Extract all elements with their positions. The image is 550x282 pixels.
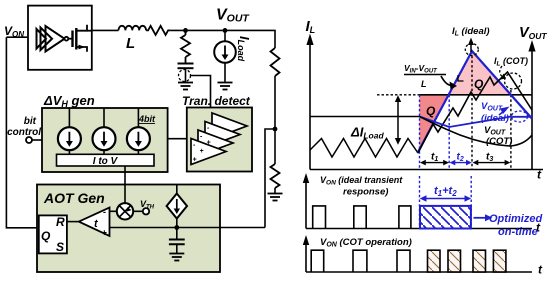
svg-text:IL: IL	[306, 18, 316, 35]
arrow VOUT ideal pointer (blue)	[499, 110, 506, 116]
axis t (top plot)	[310, 169, 543, 171]
wire comparator plus input (feedback rail)	[110, 227, 266, 229]
svg-text:VON (ideal transient: VON (ideal transient	[320, 175, 403, 187]
steady-state ripple sawtooth	[310, 139, 418, 158]
marker t3 line (black dotted)	[510, 90, 512, 170]
svg-text:I to V: I to V	[93, 156, 119, 167]
waveform VOUT ideal (blue)	[420, 117, 533, 128]
svg-text:R: R	[56, 215, 65, 229]
multiplier X1	[117, 203, 133, 219]
svg-text:L: L	[126, 35, 135, 52]
marker ellipse IL ideal peak	[465, 44, 478, 56]
waveform IL COT (black sawtooth)	[418, 72, 532, 153]
COT pulse 4 (hatched)	[428, 250, 441, 272]
svg-text:Q: Q	[426, 104, 436, 118]
svg-text:VIN-VOUT: VIN-VOUT	[404, 63, 438, 75]
svg-text:(ideal): (ideal)	[481, 113, 509, 124]
svg-text:VOUT: VOUT	[216, 7, 250, 25]
node VOUT junction	[223, 28, 228, 33]
arrow to IL COT peak	[500, 66, 503, 77]
wire I-to-V output to multiplier	[124, 166, 126, 203]
block Tran detect	[187, 108, 252, 172]
arrow optimized on-time pointer (blue)	[474, 217, 488, 219]
svg-text:+: +	[207, 140, 211, 147]
svg-text:ΔVH gen: ΔVH gen	[43, 93, 95, 109]
node B (feedback)	[273, 127, 278, 132]
block AOT Gen	[37, 185, 220, 273]
svg-text:+: +	[200, 148, 204, 155]
wire divider	[274, 76, 276, 164]
slope right-angle tick	[458, 75, 464, 81]
ground (timing cap)	[169, 254, 184, 261]
axis VON ideal (y)	[305, 180, 307, 229]
svg-text:bit: bit	[24, 116, 37, 127]
gate driver buffer chain	[37, 26, 65, 52]
svg-text:on-time: on-time	[498, 226, 538, 238]
svg-text:VOUT: VOUT	[481, 101, 503, 113]
comparator U3 (on-time)	[79, 208, 110, 237]
dotted load level (pre-step)	[377, 94, 420, 96]
marker t2 line (blue dotted)	[448, 95, 450, 170]
comparator bank	[191, 113, 247, 165]
axis VON COT (y)	[305, 242, 307, 272]
transistor M1 (NMOS)	[65, 25, 92, 52]
svg-text:Optimized: Optimized	[489, 213, 542, 225]
svg-text:VON (COT operation): VON (COT operation)	[320, 237, 412, 249]
svg-text:AOT Gen: AOT Gen	[43, 190, 105, 206]
svg-text:t2: t2	[457, 152, 464, 164]
waveform IL ideal (blue triangle)	[418, 51, 533, 153]
current source I3	[127, 108, 150, 154]
arrow dILoad	[397, 99, 399, 141]
region Q1 (charge deficit, red)	[420, 95, 449, 150]
block dVH gen	[42, 108, 168, 172]
svg-text:4bit: 4bit	[138, 114, 156, 124]
marker ellipse VOUT ideal (blue dashed)	[512, 111, 528, 122]
svg-text:-: -	[103, 207, 106, 217]
svg-text:(COT): (COT)	[486, 136, 512, 147]
COT pulse 7 (hatched)	[493, 250, 506, 272]
svg-text:ΔILoad: ΔILoad	[350, 125, 384, 141]
wire VOUT to divider	[225, 30, 275, 48]
arrow t1+t2 span (blue)	[423, 198, 468, 200]
region Q2 (charge surplus, pink)	[449, 51, 511, 95]
node C (timing cap node)	[174, 225, 179, 230]
SR latch U2	[39, 215, 67, 253]
VOUT flat level line	[310, 116, 420, 118]
axis VOUT (top plot right axis)	[531, 46, 533, 170]
svg-text:+: +	[193, 157, 197, 164]
svg-text:IL (ideal): IL (ideal)	[452, 26, 490, 38]
wire comparator minus to multiplier	[110, 210, 118, 212]
svg-text:VOUT: VOUT	[484, 125, 506, 137]
current sensor (dashed circle)	[179, 70, 191, 82]
svg-text:VOUT: VOUT	[519, 25, 547, 41]
ground (ILoad)	[218, 83, 233, 90]
marker ellipse IL COT peak	[505, 73, 522, 89]
pulse train VON COT	[311, 250, 410, 272]
svg-text:t: t	[538, 263, 543, 277]
svg-text:t3: t3	[486, 152, 493, 164]
wire box output to inductor	[92, 29, 119, 31]
current source ILoad	[224, 30, 226, 41]
I to V converter	[57, 154, 155, 166]
svg-text:t1+t2: t1+t2	[434, 185, 457, 198]
marker lines t1+t2 (blue dotted)	[419, 176, 421, 229]
dependent source G1 (diamond)	[176, 185, 178, 194]
svg-text:ILoad: ILoad	[236, 36, 252, 62]
COT pulse 6 (hatched)	[473, 250, 486, 272]
waveform VOUT COT (black)	[420, 117, 533, 147]
arrow slope pointer	[441, 76, 453, 85]
axis t (middle)	[306, 228, 532, 230]
wire to node A	[170, 29, 225, 31]
resistor DCR	[146, 26, 170, 35]
wire comparator to latch R	[67, 221, 80, 223]
svg-text:response): response)	[343, 187, 388, 198]
current source I1	[58, 108, 81, 154]
arrow t1 span	[423, 162, 447, 164]
resistor Rfb2	[271, 164, 280, 188]
svg-text:S: S	[56, 240, 64, 254]
inductor L	[119, 26, 147, 31]
wire I-to-V to multiplier (inside AOT)	[124, 184, 126, 203]
wire feedback from AOT Q to VON	[6, 37, 38, 228]
wire dVH out to Tran detect	[168, 138, 187, 140]
arrow t2 span (blue)	[452, 162, 469, 164]
axis t (bottom)	[306, 271, 532, 273]
svg-text:+: +	[102, 228, 108, 238]
svg-text:IL (COT): IL (COT)	[494, 56, 528, 68]
svg-text:Q: Q	[41, 229, 51, 243]
capacitor Cout	[178, 64, 194, 69]
node VTH terminal	[143, 208, 149, 214]
wire sense to Tran detect	[191, 76, 211, 108]
wire VON input	[6, 36, 28, 38]
power stage box U1	[28, 6, 92, 70]
svg-text:L: L	[421, 79, 427, 89]
svg-text:control: control	[7, 127, 41, 138]
arrow t3 span	[475, 162, 508, 164]
axis IL (top plot y-axis)	[309, 40, 311, 170]
wire feedback node to AOT comparator	[265, 129, 275, 228]
capacitor Ct	[176, 228, 178, 240]
wire multiplier to VTH terminal	[133, 210, 143, 212]
load level line (post-step)	[420, 94, 533, 96]
resistor Rfb1	[271, 48, 280, 76]
COT pulse 5 (hatched)	[448, 250, 461, 272]
resistor ESR	[181, 30, 190, 63]
arrow to IL ideal peak	[470, 42, 472, 52]
svg-text:Tran. detect: Tran. detect	[182, 94, 251, 108]
pulse train VON ideal	[313, 206, 411, 229]
optimized on-time pulse (blue hatched)	[420, 206, 471, 229]
ground (divider)	[268, 194, 283, 201]
ground (output cap)	[178, 83, 193, 90]
svg-text:t1: t1	[431, 152, 438, 164]
marker t1 line (blue dotted, load step)	[419, 95, 421, 170]
current source I2	[93, 108, 116, 154]
node A	[183, 28, 188, 33]
marker peak line (black dotted)	[471, 51, 473, 170]
